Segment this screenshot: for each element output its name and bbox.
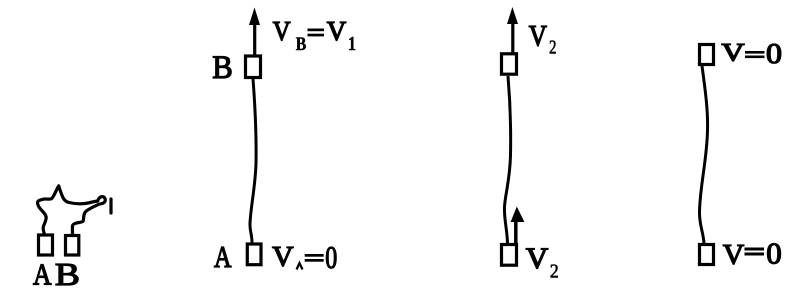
svg-text:0: 0 [325,239,337,275]
svg-text:V: V [722,40,745,67]
svg-text:0: 0 [766,39,782,70]
svg-text:A: A [214,239,232,274]
svg-text:V: V [526,243,549,275]
svg-text:B: B [55,257,80,292]
svg-text:V: V [723,239,745,271]
svg-text:V: V [327,16,347,46]
svg-text:A: A [33,257,52,292]
svg-text:V: V [529,21,547,53]
svg-text:B: B [212,50,233,86]
svg-text:B: B [296,34,307,55]
svg-text:2: 2 [549,37,557,59]
svg-text:0: 0 [766,235,782,270]
svg-text:V: V [273,16,291,46]
svg-text:1: 1 [348,34,356,55]
svg-text:V: V [272,241,294,273]
svg-text:2: 2 [550,261,559,283]
